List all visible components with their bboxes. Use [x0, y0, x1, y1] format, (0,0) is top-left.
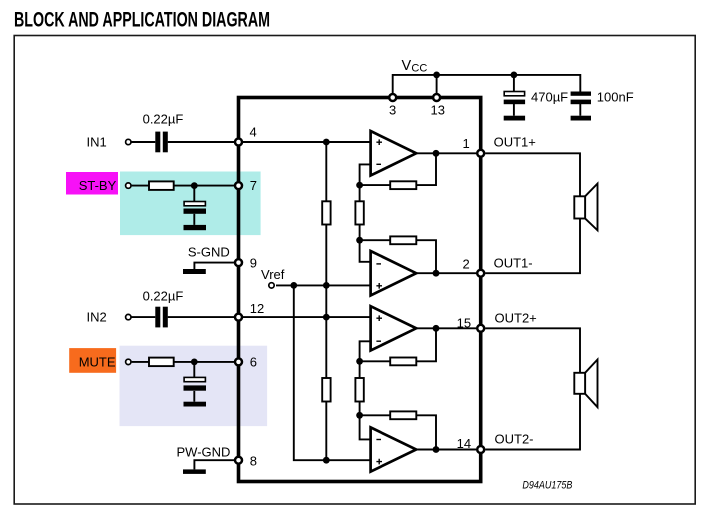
svg-text:V: V	[402, 58, 412, 74]
svg-text:CC: CC	[411, 62, 427, 74]
svg-text:0.22µF: 0.22µF	[143, 112, 184, 127]
svg-text:7: 7	[250, 178, 257, 193]
svg-text:100nF: 100nF	[597, 90, 634, 105]
svg-text:MUTE: MUTE	[79, 355, 116, 370]
svg-text:8: 8	[250, 454, 257, 469]
svg-text:IN1: IN1	[87, 135, 107, 150]
svg-text:2: 2	[463, 257, 470, 272]
svg-text:1: 1	[463, 136, 470, 151]
svg-text:OUT1+: OUT1+	[494, 135, 536, 150]
svg-text:BLOCK AND APPLICATION DIAGRAM: BLOCK AND APPLICATION DIAGRAM	[14, 9, 270, 32]
svg-text:4: 4	[250, 125, 257, 140]
svg-text:6: 6	[250, 355, 257, 370]
svg-text:D94AU175B: D94AU175B	[522, 480, 572, 492]
svg-text:OUT1-: OUT1-	[494, 256, 533, 271]
svg-text:9: 9	[250, 256, 257, 271]
svg-text:0.22µF: 0.22µF	[143, 289, 184, 304]
svg-text:S-GND: S-GND	[188, 245, 230, 260]
svg-text:470µF: 470µF	[531, 90, 568, 105]
svg-text:3: 3	[389, 103, 396, 118]
svg-text:ST-BY: ST-BY	[79, 178, 117, 193]
svg-text:IN2: IN2	[87, 310, 107, 325]
svg-text:13: 13	[431, 103, 445, 118]
svg-text:14: 14	[457, 436, 471, 451]
svg-text:OUT2+: OUT2+	[495, 311, 537, 326]
svg-text:12: 12	[250, 301, 264, 316]
svg-text:Vref: Vref	[261, 267, 285, 282]
svg-text:PW-GND: PW-GND	[177, 445, 231, 460]
svg-text:OUT2-: OUT2-	[495, 432, 534, 447]
svg-text:15: 15	[457, 316, 471, 331]
